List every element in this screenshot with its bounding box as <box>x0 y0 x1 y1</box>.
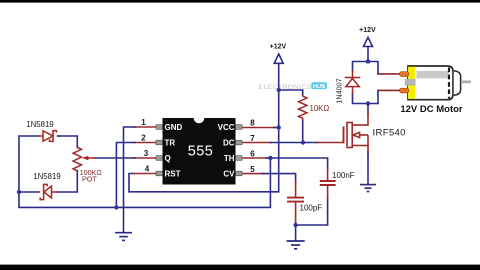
wire: gate lead red <box>317 142 344 144</box>
pin numbers left <box>141 118 150 174</box>
motor pin + <box>400 72 409 77</box>
svg-text:+12V: +12V <box>270 44 287 51</box>
wire: pin6 TH lead <box>241 157 268 159</box>
svg-text:Q: Q <box>165 154 171 163</box>
svg-text:1N5819: 1N5819 <box>33 172 60 181</box>
motor body stripe <box>417 71 450 78</box>
junction diode network left <box>17 190 21 194</box>
wire: ground node to 100nF bottom <box>296 199 328 226</box>
+12V supply symbol right <box>359 27 376 47</box>
wire: pin5 CV lead to 100pF <box>241 173 263 175</box>
wire: +12V right stem <box>367 46 369 61</box>
bottom letterbox bar <box>0 265 480 270</box>
motor shaft <box>461 81 471 84</box>
junction +12V right node <box>366 59 370 63</box>
junction pin6 tap <box>268 156 272 160</box>
IC pin stubs right <box>236 125 243 176</box>
motor pin - <box>400 88 409 93</box>
motor end bell <box>454 71 461 96</box>
diode D1 1N5819 (top) <box>38 131 57 142</box>
top letterbox bar <box>0 0 480 3</box>
svg-text:IRF540: IRF540 <box>373 128 406 139</box>
svg-text:3: 3 <box>144 149 149 158</box>
diode D2 1N5819 (bottom) <box>37 184 58 199</box>
wire: TH/TR rail down-left-up to diode network <box>19 136 270 207</box>
svg-text:1N4007: 1N4007 <box>335 78 344 103</box>
op IC U1 555 body <box>163 118 236 185</box>
wire: 100pF bottom to ground node <box>295 202 297 225</box>
wire: pot bottom to D2 <box>57 171 78 193</box>
motor left gray tab <box>405 79 416 86</box>
svg-text:POT: POT <box>82 174 97 183</box>
motor terminal block yellow <box>408 67 415 99</box>
ground (MOSFET source) <box>360 185 376 192</box>
wire: D2 left lead <box>19 191 38 193</box>
MOSFET Q1 IRF540 <box>344 123 369 148</box>
svg-text:+12V: +12V <box>359 27 376 34</box>
svg-text:555: 555 <box>188 143 213 159</box>
svg-text:VCC: VCC <box>218 123 235 132</box>
wire: top node to flyback diode <box>353 62 369 71</box>
wire: 100nF top lead red <box>327 168 329 181</box>
motor dashed line <box>448 68 450 99</box>
wire: motor - down to drain rail <box>377 90 379 103</box>
junction pin7/10K/gate <box>301 140 305 144</box>
wire: +12V tap to 10K top <box>279 90 303 95</box>
svg-text:100pF: 100pF <box>300 203 323 212</box>
svg-text:GND: GND <box>165 123 183 132</box>
wire: pin8 VCC lead <box>241 127 275 129</box>
svg-text:6: 6 <box>250 149 255 158</box>
wire: top node to motor + <box>368 62 378 74</box>
+12V supply symbol left <box>270 44 287 64</box>
watermark HUB badge <box>311 82 327 90</box>
IC pin labels <box>165 123 236 179</box>
IC notch <box>194 113 205 124</box>
svg-text:5: 5 <box>250 165 255 174</box>
capacitor C1 100pF <box>287 198 304 202</box>
svg-text:1N5819: 1N5819 <box>26 120 53 129</box>
svg-text:CV: CV <box>223 169 235 178</box>
potentiometer RV1 100K zigzag <box>73 147 81 172</box>
motor M1 body <box>400 66 471 100</box>
potentiometer wiper arrow <box>82 156 96 160</box>
capacitor C2 100nF <box>320 181 336 185</box>
svg-text:1: 1 <box>141 118 146 127</box>
svg-text:10KΩ: 10KΩ <box>310 104 330 113</box>
junction pin8/+12V <box>277 125 281 129</box>
wire: VCC/RST rail (+12V left stem down, under IC, up to pin4) <box>129 64 279 192</box>
wire: pin3 Q lead to pot wiper <box>134 157 156 159</box>
diode D3 1N4007 flyback <box>345 70 361 94</box>
ground (under IC) <box>115 233 132 241</box>
svg-text:HUB: HUB <box>313 84 326 90</box>
wire: pin2 TR lead <box>134 142 156 144</box>
svg-text:7: 7 <box>250 134 255 143</box>
pin numbers right <box>250 118 255 174</box>
svg-text:2: 2 <box>141 134 146 143</box>
junction drain node <box>366 101 370 105</box>
wire: 10K bottom to pin7 node <box>302 120 304 143</box>
wire: pin1 GND lead to ground <box>134 126 156 128</box>
wire: pin7 DC lead <box>241 142 271 144</box>
svg-text:4: 4 <box>145 165 150 174</box>
svg-text:12V DC Motor: 12V DC Motor <box>400 104 463 115</box>
junction cap ground node <box>293 223 297 227</box>
wire: flyback diode bottom to drain rail <box>353 94 379 104</box>
svg-text:8: 8 <box>250 118 255 127</box>
resistor R1 10K zigzag <box>299 95 307 121</box>
IC pin stubs left <box>156 125 163 176</box>
junction TR rail <box>114 205 118 209</box>
svg-text:TR: TR <box>165 138 176 147</box>
wire: D1 to pot top <box>58 135 60 137</box>
svg-text:DC: DC <box>223 138 235 147</box>
svg-text:100nF: 100nF <box>332 171 355 180</box>
junction +12V/10K tap <box>277 88 281 92</box>
wire: drain node down to MOSFET drain <box>367 104 369 114</box>
wire: pin4 RST lead <box>134 173 156 175</box>
wire: MOSFET source to ground <box>367 146 369 154</box>
svg-text:TH: TH <box>224 154 235 163</box>
ground (under capacitors) <box>287 241 305 249</box>
svg-text:RST: RST <box>165 169 181 178</box>
